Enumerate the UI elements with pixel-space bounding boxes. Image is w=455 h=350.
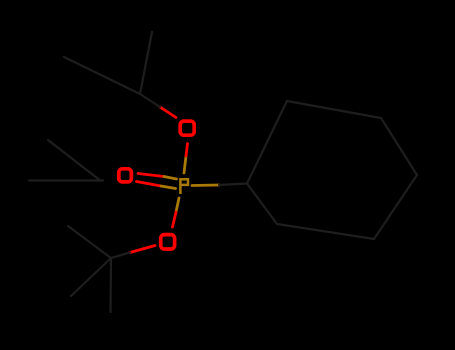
bond O2-C red half [160, 107, 176, 118]
bond C-CH3 bottom vertical [109, 258, 112, 312]
bond P-O3 olive half [176, 198, 179, 212]
bond P-C olive half [192, 184, 219, 187]
bond O3-C red half [130, 246, 155, 253]
atom O1 [119, 169, 132, 182]
bond C-CH3 bottom upleft [68, 226, 111, 258]
bond P-C carbon half [219, 184, 247, 186]
bond P-O2 red half [186, 144, 188, 157]
atom P [180, 179, 188, 194]
bond C-CH3 top vertical [140, 32, 152, 94]
bond P-O3 red half [173, 212, 177, 227]
bond C-CH3 bottom downleft [71, 258, 111, 296]
bond C-CH3 left diagonal [48, 140, 99, 180]
bond O2-C carbon half [140, 94, 160, 107]
ring cyclohexyl [247, 101, 417, 239]
bond P=O1 upper olive half [164, 177, 177, 180]
bond C-CH3 top long diagonal [64, 57, 140, 94]
atom O2 [180, 121, 194, 135]
bond O1-C left horizontal [29, 179, 103, 181]
bond O3-C carbon half [111, 253, 130, 259]
bond P-O2 olive half [184, 156, 186, 173]
bond P=O1 upper red half [138, 174, 164, 177]
atom O3 [161, 235, 175, 249]
bond P=O1 lower olive half [161, 186, 176, 189]
bond P=O1 lower red half [137, 182, 162, 187]
